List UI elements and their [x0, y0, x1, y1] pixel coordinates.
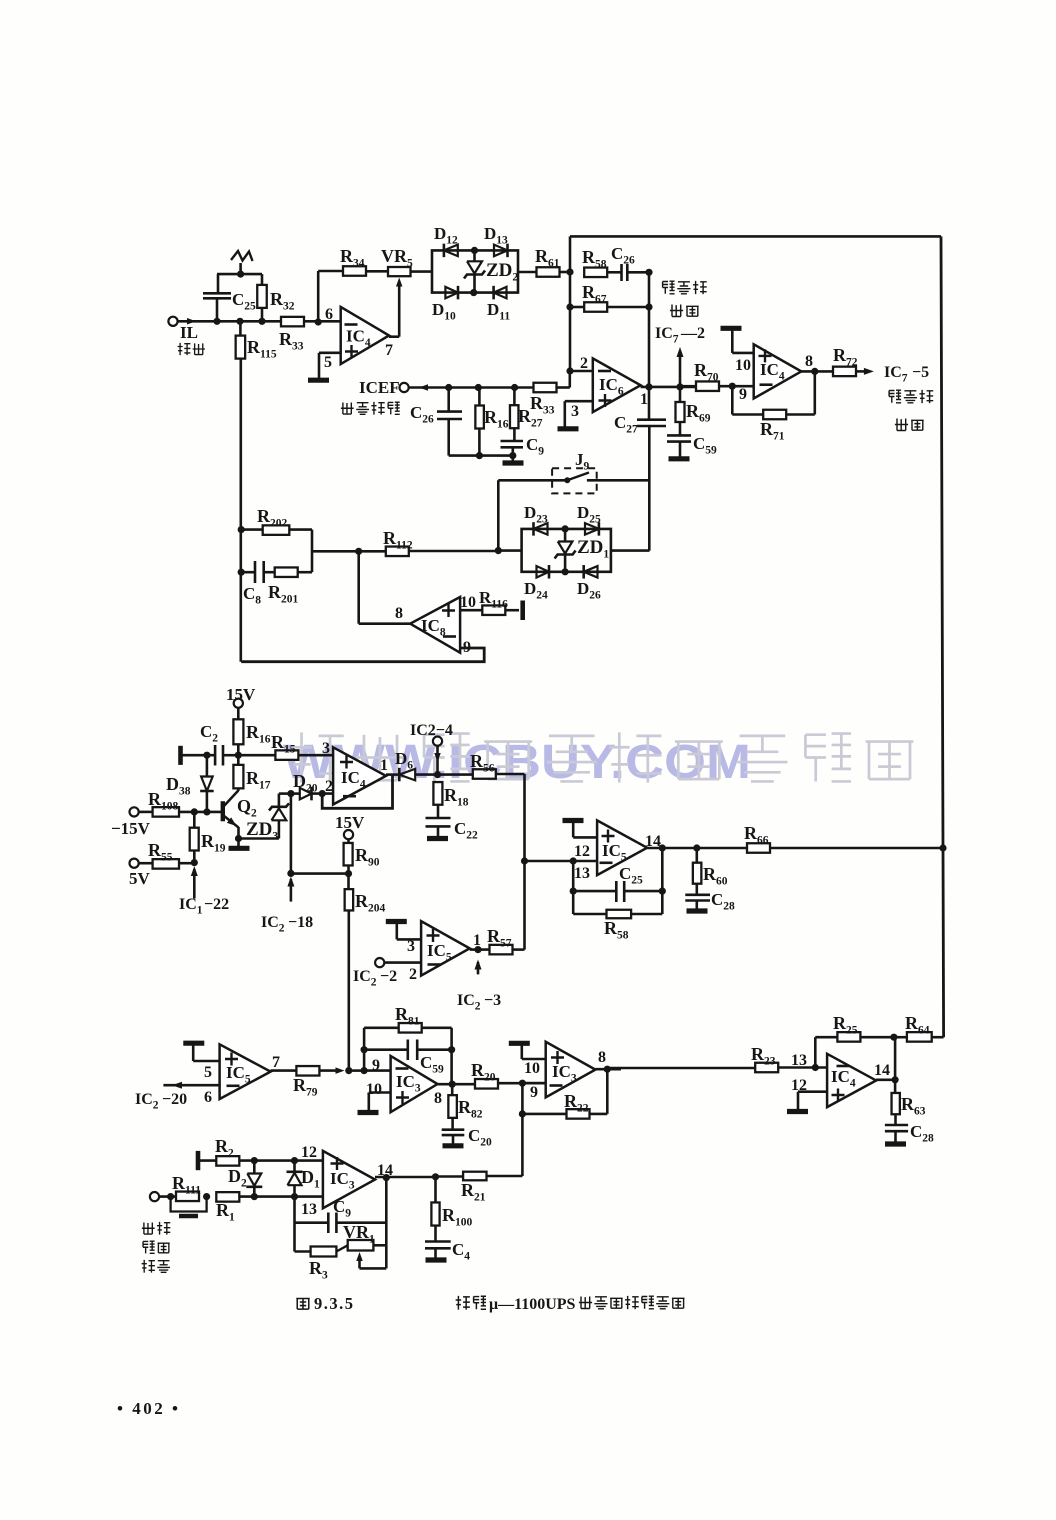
svg-text:13: 13 — [791, 1052, 807, 1069]
J9 switch — [498, 479, 567, 482]
vertical D20 node down — [290, 794, 293, 874]
op-amp IC4 first — [341, 307, 389, 364]
feedback resistor R71 — [731, 386, 734, 414]
resistor R82 — [451, 1084, 454, 1095]
IC8 pin9 wire loop — [241, 648, 484, 662]
IC3b pin10 wire ground — [522, 1058, 546, 1061]
capacitor C9 — [501, 441, 524, 447]
node earth stem — [237, 271, 244, 278]
IC5b output — [470, 948, 490, 951]
resistor R69 — [679, 387, 682, 402]
resistor R63 — [894, 1080, 897, 1093]
IC6 plus mark — [599, 394, 612, 407]
svg-text:8: 8 — [395, 605, 403, 622]
op-amp IC3 first — [391, 1056, 438, 1112]
IC8 plus mark — [442, 604, 455, 617]
VR5 wiper arrow — [396, 278, 403, 287]
Q2 emitter ground — [237, 839, 240, 847]
resistor R201 — [275, 567, 298, 577]
diode D24 — [548, 565, 551, 579]
diode D10 — [457, 286, 460, 300]
terminal IC2-2 — [375, 958, 384, 967]
capacitor C2 — [215, 745, 223, 766]
node R112 out — [495, 547, 502, 554]
resistor R202 with wires — [238, 526, 245, 533]
IC5a minus mark — [600, 861, 613, 864]
IC3b minus mark — [550, 1084, 563, 1087]
capacitor C22 — [426, 818, 451, 826]
svg-text:9: 9 — [372, 1057, 380, 1074]
bus vertical IC6 input — [569, 272, 572, 371]
IC3a output — [438, 1083, 476, 1086]
resistor R16 supply — [237, 708, 240, 720]
IC5b plus mark — [427, 929, 440, 942]
svg-text:−2: −2 — [380, 968, 397, 985]
wire VR5 to bridge — [411, 270, 433, 273]
diode D38 — [206, 755, 209, 776]
resistor R100 — [434, 1177, 437, 1203]
diode D23 — [532, 522, 535, 536]
feedback R25 — [814, 1037, 817, 1067]
node pin13d — [812, 1064, 819, 1071]
ICEF wire — [409, 386, 533, 389]
terminal 15V mid — [344, 830, 353, 839]
IC4d output — [876, 1079, 895, 1082]
IC4c output wire — [386, 773, 399, 776]
resistor R90 — [347, 839, 350, 843]
watermark company name — [291, 732, 343, 782]
wire to R23 — [607, 1067, 755, 1070]
arrow to PWM IC7-2 — [679, 351, 682, 387]
capacitor C26 second — [447, 388, 450, 412]
svg-text:13: 13 — [574, 865, 590, 882]
VR1 right wire — [373, 1244, 386, 1247]
capacitor C27 — [648, 387, 651, 420]
svg-text:8: 8 — [598, 1049, 606, 1066]
svg-text:5V: 5V — [129, 869, 151, 888]
VR1 wiper — [356, 1252, 363, 1261]
label voltage feedback — [341, 402, 354, 414]
text modulate 2 — [895, 419, 908, 431]
capacitor C28a — [685, 895, 710, 901]
IC4c plus mark — [340, 756, 353, 769]
resistor R57 — [490, 945, 513, 955]
earth ground symbol — [239, 263, 242, 274]
diode D2 — [253, 1161, 256, 1174]
resistor R60 — [695, 848, 698, 863]
op-amp IC4 fourth — [827, 1054, 876, 1107]
IC3c plus mark — [331, 1157, 344, 1170]
IC5a output wire — [647, 847, 747, 850]
svg-text:10: 10 — [735, 357, 751, 374]
terminal 15V — [234, 699, 243, 708]
svg-text:9.3.5: 9.3.5 — [314, 1294, 355, 1313]
IC4c feedback wire — [322, 775, 392, 809]
svg-text:6: 6 — [325, 306, 333, 323]
diode D1 — [293, 1161, 296, 1172]
resistor R204 — [347, 874, 350, 890]
arrow into node — [336, 1067, 345, 1074]
input terminal IL — [168, 317, 177, 326]
resistor R58 — [584, 268, 607, 278]
wire bridge to R61 — [518, 271, 537, 274]
svg-text:7: 7 — [385, 342, 393, 359]
svg-text:9: 9 — [530, 1084, 538, 1101]
svg-text:6: 6 — [204, 1089, 212, 1106]
IC3a plus mark — [396, 1091, 409, 1104]
zener ZD3 — [278, 820, 281, 838]
resistor R70 — [680, 385, 696, 388]
label xianliu (current limit) — [178, 343, 191, 355]
diode D11 — [492, 286, 495, 300]
svg-text:9: 9 — [739, 386, 747, 403]
node C26 right — [645, 269, 652, 276]
wire top rail C25/R32 — [217, 273, 262, 276]
node R32 tap — [258, 318, 265, 325]
IC5c pin6 wire arrow — [163, 1084, 219, 1087]
diode D26 — [582, 565, 585, 579]
svg-text:12: 12 — [574, 843, 590, 860]
IC6 pin3 wire and ground — [565, 400, 593, 403]
IC4 minus mark — [345, 323, 358, 326]
label overvoltage output protect — [142, 1222, 155, 1234]
diode D25 — [598, 522, 601, 536]
IC5b minus mark — [428, 963, 441, 966]
wire into bridge ZD1 — [498, 549, 521, 552]
node bridge bottom — [470, 289, 477, 296]
svg-text:−20: −20 — [162, 1091, 187, 1108]
svg-text:−22: −22 — [204, 896, 229, 913]
text modulate — [670, 305, 683, 317]
IC6 output wire — [641, 386, 696, 389]
resistor R111 — [176, 1192, 199, 1202]
long vertical R204 to IC3 node — [347, 911, 350, 1071]
node C2 rail — [235, 752, 242, 759]
IC6 minus mark — [598, 370, 611, 373]
feedback R58b — [573, 913, 606, 916]
zener ZD1 — [564, 529, 567, 542]
IC8 output wire — [359, 622, 411, 625]
svg-text:1: 1 — [640, 391, 648, 408]
wire R112 to J9 node — [409, 550, 499, 553]
wire R33b up to pin2 — [557, 386, 570, 389]
resistor R33 — [281, 317, 304, 327]
svg-text:IC2−4: IC2−4 — [410, 722, 453, 739]
svg-text:μ—1100UPS: μ—1100UPS — [489, 1296, 576, 1313]
output arrow IC7-5 — [856, 370, 870, 373]
diode bridge ZD2 box — [432, 250, 518, 292]
arrow IC1-22 — [193, 869, 196, 899]
arrow IC2-18 — [290, 879, 293, 902]
diode bridge ZD1 box — [522, 529, 611, 572]
feedback R22 — [521, 1083, 524, 1114]
svg-text:10: 10 — [524, 1060, 540, 1077]
svg-text:8: 8 — [805, 353, 813, 370]
svg-text:2: 2 — [409, 966, 417, 983]
node ZD1 top — [562, 525, 569, 532]
svg-text:1: 1 — [380, 757, 388, 774]
resistor R116b — [460, 609, 483, 612]
IC3b plus mark — [551, 1051, 564, 1064]
node D6 R18 — [434, 771, 441, 778]
op-amp IC8 reversed — [410, 597, 460, 653]
resistor R2 — [198, 1159, 216, 1162]
IC4d pin12 wire ground — [798, 1090, 827, 1093]
svg-text:2: 2 — [325, 778, 333, 795]
ground below C9 rail — [511, 456, 514, 462]
resistor R1 — [216, 1192, 239, 1202]
op-amp IC5 lower — [220, 1044, 271, 1099]
resistor R34 — [343, 266, 366, 276]
R56 vertical bus — [523, 774, 526, 950]
left bus R115 down to R202/C8 — [240, 359, 243, 662]
IC5a pin13 wire — [525, 860, 598, 863]
wire to R34 — [318, 270, 343, 273]
capacitor C9b — [293, 1197, 296, 1252]
feedback R81 — [363, 1028, 366, 1071]
terminal ICEF — [400, 383, 409, 392]
IC3c output wire — [375, 1176, 436, 1179]
IC5b pin3 wire ground — [397, 938, 421, 941]
wire emitter to ZD3 — [239, 837, 279, 840]
node R58 left — [566, 268, 573, 275]
resistor R72 — [833, 367, 856, 377]
resistor R66 — [747, 843, 770, 853]
arrow IC2-3 — [477, 962, 480, 974]
figure caption — [296, 1299, 309, 1310]
transistor Q2 — [221, 801, 225, 821]
capacitor C8 — [238, 569, 245, 576]
IC5c output — [271, 1069, 297, 1072]
IC4d plus mark — [832, 1089, 845, 1102]
resistor R21 — [436, 1175, 464, 1178]
capacitor C4 — [425, 1242, 451, 1249]
op-amp IC5 mid — [421, 921, 470, 976]
terminal -15V — [130, 807, 139, 816]
feedback C59b — [361, 1046, 368, 1053]
node R79 R204 — [345, 1067, 352, 1074]
wire bridge ZD1 right to bus — [611, 549, 650, 552]
feedback C25b — [661, 848, 664, 914]
wire IL input to IC4 pin6 — [178, 320, 341, 323]
IC3b pin9 wire — [522, 1082, 545, 1085]
IC5c minus mark — [227, 1085, 240, 1088]
capacitor C28b — [885, 1125, 908, 1131]
diode D20 — [291, 792, 300, 795]
node R115 tap — [236, 318, 243, 325]
J9 left vertical — [497, 480, 500, 550]
svg-text:5: 5 — [324, 354, 332, 371]
terminator bar C2 — [178, 746, 183, 765]
op-amp IC3 second — [546, 1042, 596, 1098]
op-amp IC5 upper — [597, 820, 647, 875]
op-amp IC4 second — [754, 344, 802, 398]
IC6 pin2 wire — [570, 370, 593, 373]
R111 ground bracket — [171, 1197, 207, 1212]
svg-text:−18: −18 — [288, 914, 313, 931]
node D38 tap — [203, 752, 210, 759]
svg-text:−5: −5 — [912, 364, 929, 381]
resistor R61 — [537, 267, 560, 277]
resistor R55 — [139, 862, 153, 865]
wire top rail to right bus — [569, 236, 572, 272]
IC4 output wire to VR5 wiper — [389, 335, 399, 338]
resistor R23 — [755, 1063, 778, 1073]
IC3b output — [595, 1068, 621, 1071]
svg-text:12: 12 — [301, 1144, 317, 1161]
svg-text:10: 10 — [460, 594, 476, 611]
node pin9 — [729, 383, 736, 390]
svg-text:3: 3 — [571, 403, 579, 420]
IC4 plus mark — [345, 345, 358, 358]
wire to R112 — [312, 550, 386, 553]
resistor R32 — [261, 274, 264, 285]
resistor R108 — [139, 811, 153, 814]
resistor R79 — [296, 1066, 319, 1076]
terminal 5V — [130, 859, 139, 868]
svg-text:ICEF: ICEF — [359, 378, 400, 397]
node bridge top — [471, 247, 478, 254]
resistor R20 — [475, 1079, 498, 1089]
relay contact J9 dashed box — [552, 468, 597, 493]
IC3a pin10 wire ground — [369, 1091, 391, 1094]
resistor R67 with wires — [570, 306, 584, 309]
IC4 pin5 wire and ground — [319, 351, 341, 354]
resistor R56 — [438, 773, 473, 776]
IC8 minus mark — [443, 635, 456, 638]
resistor R16 icef — [478, 388, 481, 406]
Q2 emitter wire — [237, 827, 240, 839]
zener ZD2 — [473, 250, 476, 261]
vertical to R21 — [521, 1114, 524, 1176]
capacitor C26 series — [607, 271, 621, 274]
icef bottom rail — [449, 454, 513, 457]
diode D12 — [443, 244, 446, 258]
svg-text:7: 7 — [272, 1054, 280, 1071]
IC5a pin12 wire ground — [573, 836, 597, 839]
terminator bar R2 — [196, 1151, 201, 1170]
resistor R18 — [433, 782, 442, 805]
IC4c minus mark — [343, 795, 356, 798]
node R19 R55 — [191, 859, 198, 866]
node pin2 IC4c — [319, 790, 326, 797]
svg-text:14: 14 — [874, 1062, 890, 1079]
op-amp IC4 third — [333, 747, 386, 804]
terminal IC2-4 — [433, 737, 442, 746]
wire R34 to VR5 — [366, 270, 388, 273]
svg-text:IL: IL — [180, 323, 198, 342]
wire R201 to R112 node — [298, 571, 313, 574]
right bus vertical — [941, 236, 944, 1037]
wire up to R34 — [317, 271, 320, 322]
wire ZD3 top to D20 node — [279, 792, 291, 795]
potentiometer VR1 — [336, 1245, 347, 1251]
wire pin6 node — [315, 318, 322, 325]
IC4b pin10 wire and ground above — [732, 352, 753, 355]
capacitor C59 — [667, 435, 691, 441]
text to pulse width 2 — [889, 390, 901, 403]
ground bar R116 — [520, 601, 525, 621]
IC4d minus overbar — [837, 1065, 850, 1068]
wire R108 to Q2 base — [179, 811, 222, 814]
diode D13 — [506, 244, 509, 258]
terminal overvoltage — [150, 1192, 159, 1201]
IC5c plus mark — [225, 1053, 238, 1066]
resistor R15 — [238, 754, 276, 757]
svg-text:2: 2 — [580, 355, 588, 372]
bus vertical C26-R67-output — [648, 272, 651, 387]
resistor R27 — [513, 388, 516, 405]
IC4b minus mark — [760, 383, 773, 386]
resistor R19 — [193, 812, 196, 828]
svg-text:• 402 •: • 402 • — [117, 1399, 180, 1418]
svg-text:5: 5 — [204, 1064, 212, 1081]
node C25 tap — [213, 318, 220, 325]
svg-text:−3: −3 — [484, 992, 501, 1009]
IC4b plus mark — [759, 349, 772, 362]
R33 icef resistor — [534, 383, 557, 393]
IC4b output wire — [801, 370, 833, 373]
node ZD1 bottom — [562, 568, 569, 575]
IC5c pin5 wire ground — [193, 1060, 219, 1063]
text to pulse width — [663, 281, 675, 294]
Q2 collector wire — [237, 788, 240, 791]
capacitor C20 — [442, 1130, 465, 1135]
wire to IC3a — [364, 1069, 391, 1072]
capacitor C25 — [216, 298, 219, 321]
op-amp IC6 — [593, 358, 641, 412]
wire to R90 node — [291, 872, 349, 875]
resistor R3 — [295, 1250, 311, 1253]
IC3a minus mark — [396, 1067, 409, 1070]
wire R61 to node — [559, 271, 570, 274]
resistor R64 — [907, 1032, 932, 1042]
svg-text:13: 13 — [301, 1201, 317, 1218]
op-amp IC3 third — [323, 1151, 375, 1208]
resistor R17 — [237, 755, 240, 765]
svg-text:8: 8 — [434, 1090, 442, 1107]
IC3c feedback vertical — [385, 1178, 388, 1269]
resistor R112 — [386, 547, 409, 557]
svg-text:—2: —2 — [680, 325, 705, 342]
diode D6 — [398, 768, 401, 782]
potentiometer VR5 — [388, 267, 411, 276]
resistor R115 — [239, 321, 242, 335]
svg-text:−15V: −15V — [111, 819, 151, 838]
IC5a plus mark — [602, 830, 615, 843]
